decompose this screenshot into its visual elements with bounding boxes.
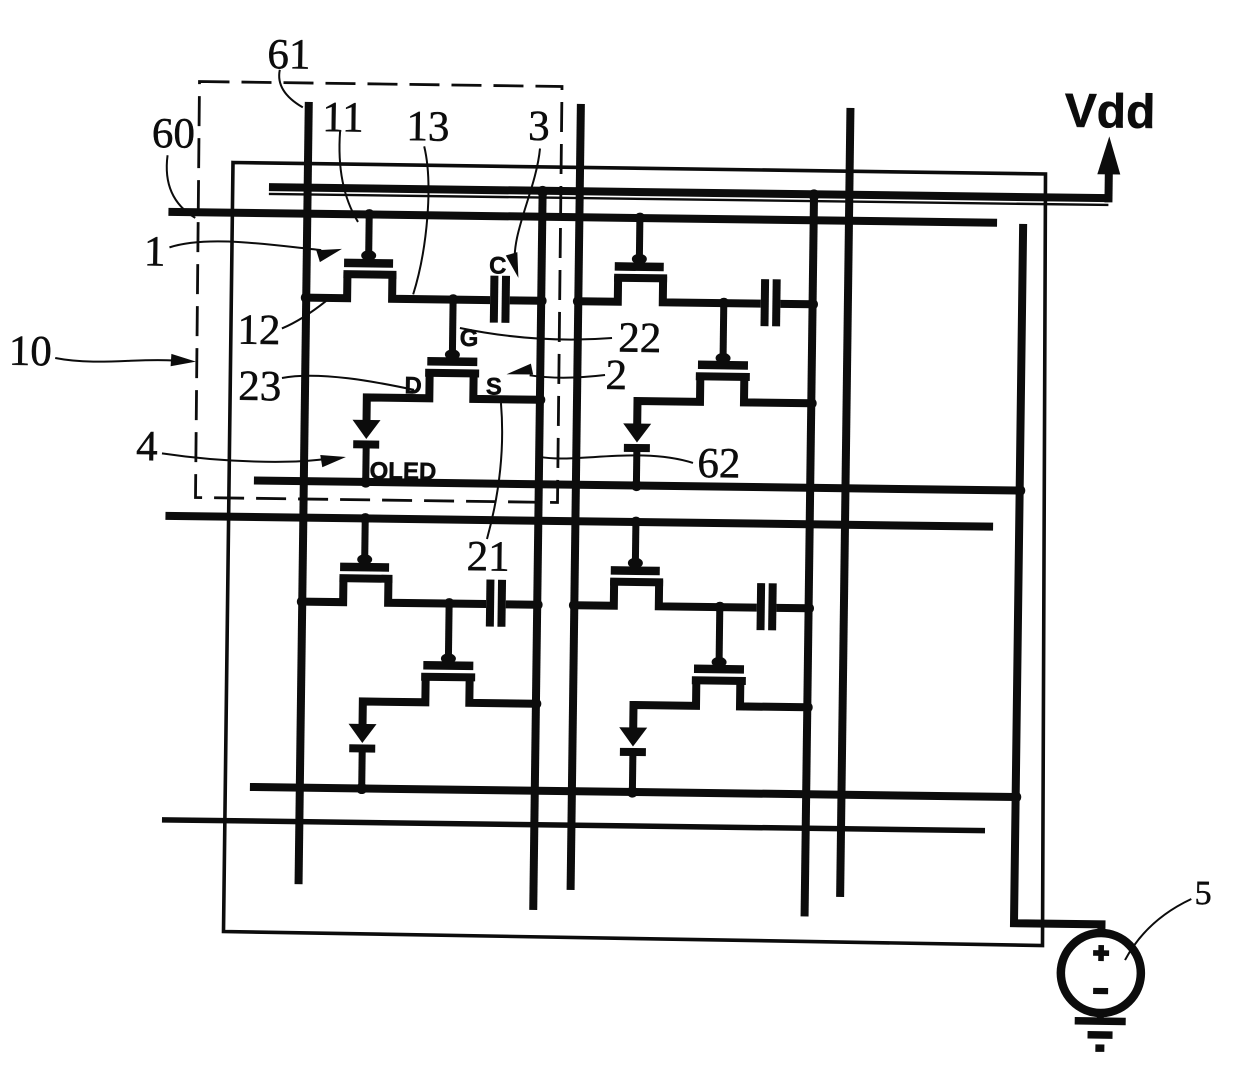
- gate electrode contact of switching TFT P3: [357, 554, 372, 565]
- node storage node P4: [714, 602, 725, 613]
- source wire of driving TFT P3 to Vdd column: [469, 675, 536, 703]
- node capacitor to Vdd column junction P1: [536, 295, 547, 306]
- wire Vdd riser: [1104, 161, 1113, 202]
- capacitor right plate P4: [768, 583, 777, 630]
- svg-text:2: 2: [605, 352, 627, 399]
- wire scan line 3: [162, 820, 985, 831]
- node Vdd column 2 junction: [808, 189, 819, 200]
- leader line for 61: [279, 70, 304, 108]
- node data line junction P4: [569, 600, 580, 611]
- leader line for 1: [169, 241, 321, 250]
- node gate contact of switching TFT P3 on scan line: [360, 513, 371, 524]
- OLED diode cathode bar P3: [349, 744, 375, 752]
- svg-text:10: 10: [8, 328, 52, 376]
- wire gate lead of driving TFT P4: [716, 607, 724, 663]
- source wire of driving TFT P4 to Vdd column: [740, 679, 808, 707]
- wire Vdd column line 1: [533, 191, 542, 909]
- svg-text:61: 61: [267, 31, 311, 79]
- channel bar of switching TFT P4: [610, 578, 663, 587]
- drain wire of driving TFT P2 to OLED anode: [637, 374, 700, 425]
- svg-text:62: 62: [697, 440, 741, 488]
- wire data line 1: [299, 102, 309, 884]
- gate electrode bar of switching TFT P4: [611, 566, 660, 575]
- gate electrode bar of switching TFT P1: [344, 259, 393, 268]
- node Vdd column 1 junction: [537, 186, 548, 197]
- leader line for 12: [282, 300, 326, 329]
- gate electrode bar of driving TFT P1: [427, 357, 477, 366]
- wire capacitor P3 to Vdd column: [506, 600, 537, 608]
- wire gate lead of switching TFT P2: [636, 218, 644, 260]
- channel bar of switching TFT P1: [343, 270, 396, 279]
- node gate contact of switching TFT P4 on scan line: [630, 517, 641, 528]
- node data line junction P3: [297, 596, 308, 607]
- wire data line 3: [840, 108, 850, 897]
- node gate contact of switching TFT P2 on scan line: [634, 213, 645, 224]
- node OLED to common line junction P1: [360, 476, 371, 487]
- wire gate lead of driving TFT P1: [449, 300, 457, 356]
- gate electrode bar of switching TFT P2: [615, 262, 664, 271]
- svg-text:3: 3: [528, 103, 550, 150]
- wire gate lead of driving TFT P2: [720, 303, 728, 359]
- svg-text:S: S: [486, 373, 502, 400]
- drain wire of driving TFT P1 to OLED anode: [367, 370, 430, 421]
- svg-text:13: 13: [406, 103, 450, 151]
- OLED diode anode triangle P2: [623, 423, 651, 442]
- svg-text:60: 60: [152, 110, 196, 158]
- capacitor left plate P4: [757, 583, 766, 630]
- OLED diode cathode bar P1: [353, 440, 379, 448]
- node data line junction P2: [573, 296, 584, 307]
- node source to Vdd column junction P2: [806, 398, 817, 409]
- leader line for 4: [162, 453, 325, 462]
- leader line for 2: [530, 374, 605, 378]
- gate electrode bar of switching TFT P3: [340, 563, 389, 572]
- voltage source minus sign: [1093, 988, 1108, 994]
- node storage node P3: [444, 598, 455, 609]
- channel bar of driving TFT P2: [696, 372, 750, 381]
- wire capacitor P2 to Vdd column: [780, 300, 812, 308]
- svg-text:23: 23: [238, 363, 282, 411]
- node source to Vdd column junction P4: [802, 702, 813, 713]
- wire data line 2: [571, 104, 581, 890]
- gate electrode bar of driving TFT P2: [698, 361, 748, 370]
- gate electrode contact of driving TFT P3: [441, 653, 456, 664]
- svg-text:1: 1: [144, 228, 166, 275]
- wire gate lead of switching TFT P3: [361, 518, 369, 560]
- leader line for 62: [540, 454, 693, 463]
- channel bar of switching TFT P3: [339, 574, 392, 583]
- node capacitor to Vdd column junction P4: [803, 603, 814, 614]
- drain wire of switching TFT P1 to storage node: [392, 273, 490, 300]
- gate electrode contact of driving TFT P4: [712, 657, 727, 668]
- leader line for 3: [514, 148, 540, 269]
- capacitor left plate P2: [760, 279, 769, 326]
- arrowhead for 3: [506, 252, 519, 278]
- arrowhead for 4: [320, 455, 346, 468]
- svg-text:11: 11: [322, 94, 364, 142]
- node source to Vdd column junction P1: [534, 394, 545, 405]
- capacitor left plate P1: [490, 276, 499, 323]
- svg-text:21: 21: [466, 533, 510, 581]
- wire gate lead of switching TFT P1: [365, 214, 373, 256]
- node gate contact of switching TFT P1 on scan line: [364, 209, 375, 220]
- svg-text:D: D: [404, 372, 422, 399]
- node data line junction P1: [301, 292, 312, 303]
- svg-text:12: 12: [237, 307, 281, 355]
- OLED diode anode triangle P4: [619, 727, 647, 746]
- OLED diode anode triangle P3: [348, 724, 376, 743]
- wire OLED cathode lead P4: [629, 752, 637, 792]
- gate electrode contact of switching TFT P2: [632, 254, 647, 265]
- node common line 1 to Vdd return: [1014, 485, 1025, 496]
- drain wire of switching TFT P4 to storage node: [659, 580, 757, 607]
- node OLED to common line junction P4: [627, 786, 638, 797]
- gate electrode bar of driving TFT P4: [694, 665, 744, 674]
- channel bar of driving TFT P4: [692, 676, 746, 685]
- source wire of driving TFT P1 to Vdd column: [473, 371, 540, 399]
- capacitor right plate P2: [772, 279, 781, 326]
- OLED diode anode triangle P1: [352, 420, 380, 439]
- node common line 2 to Vdd return: [1010, 791, 1021, 802]
- node capacitor to Vdd column junction P3: [532, 599, 543, 610]
- wire scan line 2: [165, 516, 993, 527]
- wire OLED common line 1: [254, 481, 1020, 491]
- gate electrode contact of switching TFT P1: [361, 250, 376, 261]
- OLED diode cathode bar P4: [620, 748, 646, 756]
- node storage node P2: [718, 298, 729, 309]
- capacitor right plate P1: [501, 276, 510, 323]
- wire Vdd horizontal bus: [269, 187, 1109, 198]
- node storage node P1: [448, 294, 459, 305]
- leader line for 23: [282, 375, 414, 390]
- Vdd arrow: [1097, 136, 1120, 174]
- leader line for 5: [1125, 898, 1191, 961]
- wire gate lead of driving TFT P3: [445, 604, 453, 660]
- wire Vdd column line 2: [805, 195, 814, 916]
- gate electrode contact of driving TFT P1: [445, 349, 460, 360]
- svg-text:4: 4: [136, 423, 158, 470]
- source wire of switching TFT P3 to data line: [302, 576, 343, 603]
- svg-text:5: 5: [1194, 875, 1211, 912]
- leader line for 21: [487, 403, 503, 539]
- arrowhead for 1: [316, 249, 342, 263]
- leader line for 60: [166, 155, 196, 218]
- wire OLED common line 2: [250, 787, 1016, 797]
- channel bar of switching TFT P2: [614, 274, 667, 283]
- ground bar 1: [1075, 1017, 1126, 1025]
- source wire of switching TFT P2 to data line: [578, 275, 618, 302]
- node OLED to common line junction P3: [356, 783, 367, 794]
- capacitor left plate P3: [486, 580, 495, 627]
- source wire of switching TFT P1 to data line: [306, 272, 347, 299]
- source wire of switching TFT P4 to data line: [574, 579, 614, 606]
- ground bar 2: [1088, 1031, 1113, 1039]
- leader line for 22: [460, 328, 612, 340]
- channel bar of driving TFT P3: [421, 673, 475, 682]
- wire Vdd return vertical to source: [1014, 224, 1111, 935]
- channel bar of driving TFT P1: [425, 369, 479, 378]
- voltage source plus sign: [1093, 950, 1109, 956]
- gate electrode contact of switching TFT P4: [628, 558, 643, 569]
- capacitor right plate P3: [497, 580, 506, 627]
- OLED diode cathode bar P2: [624, 444, 650, 452]
- node capacitor to Vdd column junction P2: [807, 299, 818, 310]
- node OLED to common line junction P2: [631, 480, 642, 491]
- wire OLED cathode lead P2: [633, 448, 640, 485]
- source wire of driving TFT P2 to Vdd column: [744, 375, 812, 403]
- voltage source V5 circle: [1060, 933, 1141, 1014]
- outer panel box 10: [224, 163, 1046, 946]
- wire OLED cathode lead P1: [362, 444, 369, 481]
- wire source to ground: [1097, 1013, 1104, 1019]
- drain wire of driving TFT P4 to OLED anode: [633, 677, 696, 728]
- drain wire of switching TFT P3 to storage node: [388, 577, 486, 604]
- arrowhead for 2: [507, 363, 534, 374]
- wire OLED cathode lead P3: [358, 748, 366, 788]
- gate electrode bar of driving TFT P3: [423, 661, 473, 670]
- leader line for 11: [338, 131, 359, 222]
- wire scan line 1: [168, 212, 997, 223]
- drain wire of switching TFT P2 to storage node: [663, 276, 761, 303]
- leader line for 10: [55, 358, 174, 363]
- wire gate lead of switching TFT P4: [632, 522, 640, 564]
- gate electrode contact of driving TFT P2: [715, 353, 730, 364]
- wire capacitor P4 to Vdd column: [776, 604, 808, 612]
- svg-text:OLED: OLED: [369, 458, 436, 486]
- wire thin line under Vdd bus: [269, 194, 1109, 205]
- svg-text:Vdd: Vdd: [1064, 85, 1155, 139]
- ground bar 3: [1095, 1044, 1104, 1052]
- svg-text:C: C: [489, 252, 507, 279]
- arrowhead for 10: [171, 354, 196, 367]
- node source to Vdd column junction P3: [530, 698, 541, 709]
- leader line for 13: [413, 146, 429, 294]
- dashed box 60 around pixel unit: [196, 82, 563, 503]
- drain wire of driving TFT P3 to OLED anode: [363, 674, 426, 725]
- wire capacitor P1 to Vdd column: [510, 296, 541, 304]
